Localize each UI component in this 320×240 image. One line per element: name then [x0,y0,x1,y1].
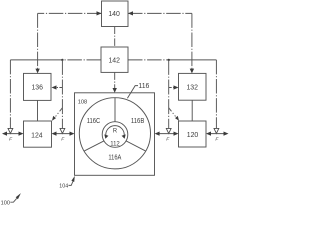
arrow into 132 top [190,69,194,74]
arrow into 136 top [35,69,39,74]
svg-text:F: F [166,136,170,142]
arrow into housing left edge [70,132,75,136]
arrow into 124 left edge [19,132,24,136]
svg-text:120: 120 [187,132,199,139]
arrow into 132 left edge [174,85,179,89]
svg-text:112: 112 [110,140,120,147]
fluid line 124 to housing [53,133,73,135]
housing square 104 [75,93,155,176]
arrowhead for 104 leader [71,176,74,182]
wire: right-center vertical [168,60,170,130]
wire: 132 to 120 vertical [191,100,193,121]
divider spoke lower-right [126,141,146,151]
svg-text:136: 136 [31,84,43,91]
wire: diagonal branch to 124 corner [56,108,63,117]
junction dot right [168,59,170,61]
svg-text:104: 104 [59,184,68,190]
arrow at left-center F junction [60,128,65,133]
arrow into 120 top-left corner [175,116,179,121]
svg-text:F: F [61,136,65,142]
wire: left-center vertical [61,60,63,130]
wire: far-right vertical [215,60,217,130]
divider spoke up [114,98,116,122]
wire: control line 140 left horizontal [38,12,102,14]
wire: 142 down to housing [114,72,116,89]
wire: control line right vertical down to 132 [191,13,193,69]
arrow left end outward [2,132,7,136]
arrow at right-center F junction [166,128,171,133]
hub inner circle 112 [102,122,128,148]
wire: diagonal branch to 120 corner [169,108,176,117]
arrow at far-left F junction [8,128,13,133]
svg-text:100: 100 [1,200,10,206]
arrow into 120 left edge [174,132,179,136]
wire: control line left vertical down to 136 [37,13,39,69]
arrow into housing right edge [155,132,160,136]
box 120 [179,121,207,147]
box 124 [24,121,52,147]
wire: branch to 132 left [169,87,176,89]
fluid line far left [4,133,23,135]
svg-text:F: F [9,136,13,142]
wire: 136 to 124 vertical [37,100,39,121]
arrow into 120 right edge [206,132,211,136]
arrow into 140 left [97,11,102,15]
arrow into housing top [113,88,117,93]
rotation arrow head right [122,134,126,138]
wire: 142 left line dash-dot part [62,59,101,61]
rotation arrow arc [106,126,124,137]
divider spoke lower-left [84,141,104,151]
wire: 142 right line solid part [169,59,217,61]
svg-text:132: 132 [186,84,198,91]
arrow into 124 top-right corner [52,116,56,121]
arrow into 124 right edge [52,132,57,136]
box 140 [102,1,129,27]
arrow right end outward [224,132,229,136]
leader for 104 [69,181,73,185]
rotor outer circle 116 [79,98,150,169]
leader for 100 [10,198,16,202]
svg-text:108: 108 [78,99,88,105]
wire: far-left vertical [9,60,11,130]
svg-text:F: F [215,136,219,142]
svg-text:116C: 116C [87,118,101,125]
box 132 [179,73,207,100]
wire: 140 to 142 vertical [114,27,116,48]
svg-text:142: 142 [108,57,120,64]
fluid line housing to 120 [156,133,177,135]
junction dot left [61,59,63,61]
rotation arrow head left [104,134,108,138]
svg-text:116: 116 [138,83,149,90]
svg-text:R: R [113,127,118,134]
svg-text:116B: 116B [131,118,145,125]
svg-text:116A: 116A [108,155,121,162]
box 142 [101,47,128,72]
wire: branch to 136 right [55,87,62,89]
fluid line far right [208,133,228,135]
arrow into 136 right edge [52,85,57,89]
arrow into 140 right [128,11,133,15]
wire: control line 140 right horizontal [128,12,192,14]
wire: 142 left line solid part [10,59,62,61]
leader for 116 [127,86,138,99]
svg-text:140: 140 [108,11,120,18]
wire: 142 right line dash-dot part [128,59,169,61]
arrowhead for 100 leader [16,193,21,199]
box 136 [24,73,52,100]
arrow at far-right F junction [214,128,219,133]
svg-text:124: 124 [31,132,43,139]
